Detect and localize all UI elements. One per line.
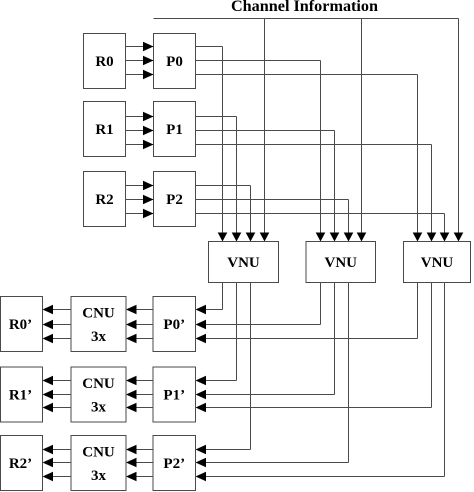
wire P0 output 2 to VNU2 — [196, 60, 321, 62]
wire channel drop to VNU1 — [264, 19, 266, 234]
wire CNU to R2&#8217; line 3 — [53, 476, 71, 478]
wire CNU to R2&#8217; line 2 — [53, 462, 71, 464]
wire channel drop to VNU2 — [361, 19, 363, 234]
wire P0 output 1 to VNU1 — [196, 46, 223, 48]
wire VNU2 output 3 to P2&#8217; — [348, 283, 350, 463]
block P2&#8217; — [153, 436, 196, 491]
wire R1 to P1 line 2 — [126, 130, 154, 132]
svg-text:CNU: CNU — [82, 445, 115, 461]
svg-text:R1’: R1’ — [9, 388, 32, 404]
wire VNU1 output 1 to P0&#8217; — [222, 283, 224, 310]
wire CNU to R0&#8217; line 1 — [53, 309, 71, 311]
svg-text:Channel Information: Channel Information — [231, 0, 378, 15]
wire channel drop to VNU3 — [458, 19, 460, 234]
wire VNU2 output 2 to P1&#8217; — [334, 283, 336, 395]
wire CNU to R0&#8217; line 3 — [53, 338, 71, 340]
block CNU 3x (R1&#8217; row) — [71, 367, 126, 422]
wire P0 output 3 to VNU3 — [196, 74, 418, 76]
block R0&#8217; — [1, 297, 43, 352]
svg-text:R0’: R0’ — [9, 317, 32, 333]
wire P1 output 2 to VNU2 — [196, 130, 335, 132]
block VNU1 — [209, 242, 279, 283]
svg-text:R1: R1 — [95, 122, 113, 138]
wire R1 to P1 line 3 — [126, 144, 154, 146]
wire CNU to R2&#8217; line 1 — [53, 449, 71, 451]
wire VNU3 output 3 to P2&#8217; — [444, 283, 446, 477]
block P1&#8217; — [153, 367, 196, 422]
wire P2 output 2 to VNU2 — [196, 199, 349, 201]
svg-text:VNU: VNU — [421, 255, 454, 271]
block P0&#8217; — [153, 297, 196, 352]
svg-text:R0: R0 — [95, 54, 113, 70]
wire R2 to P2 line 3 — [126, 213, 154, 215]
wire P2&#8217; to CNU line 3 — [137, 476, 154, 478]
block CNU 3x (R2&#8217; row) — [71, 436, 126, 491]
svg-text:P2: P2 — [166, 192, 183, 208]
wire R0 to P0 line 2 — [126, 60, 154, 62]
svg-text:P0: P0 — [166, 54, 183, 70]
svg-text:3x: 3x — [91, 400, 107, 416]
svg-text:P2’: P2’ — [163, 456, 185, 472]
wire P2 output 3 to VNU3 — [196, 213, 445, 215]
block P0 — [154, 34, 196, 89]
svg-text:R2: R2 — [95, 192, 113, 208]
svg-text:R2’: R2’ — [9, 456, 32, 472]
block P1 — [154, 102, 196, 157]
svg-text:VNU: VNU — [227, 255, 260, 271]
block R2 — [84, 172, 126, 227]
svg-text:3x: 3x — [91, 468, 107, 484]
wire P2 output 1 to VNU1 — [196, 185, 251, 187]
svg-text:P1: P1 — [166, 122, 183, 138]
wire P1&#8217; to CNU line 2 — [137, 394, 154, 396]
wire R0 to P0 line 1 — [126, 46, 154, 48]
wire P0&#8217; to CNU line 1 — [137, 309, 154, 311]
wire P0&#8217; to CNU line 3 — [137, 338, 154, 340]
wire P1 output 3 to VNU3 — [196, 144, 432, 146]
wire P1&#8217; to CNU line 1 — [137, 380, 154, 382]
wire VNU3 output 1 to P0&#8217; — [417, 283, 419, 339]
svg-text:CNU: CNU — [82, 376, 115, 392]
wire VNU3 output 2 to P1&#8217; — [431, 283, 433, 408]
block VNU2 — [306, 242, 376, 283]
wire R2 to P2 line 2 — [126, 199, 154, 201]
svg-text:P1’: P1’ — [163, 388, 185, 404]
block R0 — [84, 34, 126, 89]
wire CNU to R1&#8217; line 1 — [53, 380, 71, 382]
wire P2&#8217; to CNU line 2 — [137, 462, 154, 464]
wire VNU1 output 3 to P2&#8217; — [250, 283, 252, 450]
block R2&#8217; — [1, 436, 43, 491]
wire P0&#8217; to CNU line 2 — [137, 324, 154, 326]
wire CNU to R1&#8217; line 3 — [53, 407, 71, 409]
wire P1&#8217; to CNU line 3 — [137, 407, 154, 409]
wire CNU to R0&#8217; line 2 — [53, 324, 71, 326]
block VNU3 — [404, 242, 471, 283]
svg-text:3x: 3x — [91, 329, 107, 345]
svg-text:CNU: CNU — [82, 306, 115, 322]
block CNU 3x (R0&#8217; row) — [71, 297, 126, 352]
wire P2&#8217; to CNU line 1 — [137, 449, 154, 451]
wire VNU2 output 1 to P0&#8217; — [320, 283, 322, 325]
wire R1 to P1 line 1 — [126, 116, 154, 118]
wire VNU1 output 2 to P1&#8217; — [236, 283, 238, 381]
wire R2 to P2 line 1 — [126, 185, 154, 187]
wire P1 output 1 to VNU1 — [196, 116, 237, 118]
wire CNU to R1&#8217; line 2 — [53, 394, 71, 396]
wire R0 to P0 line 3 — [126, 74, 154, 76]
block R1&#8217; — [1, 367, 43, 422]
wire channel-information bus horizontal — [154, 18, 459, 20]
block P2 — [154, 172, 196, 227]
svg-text:VNU: VNU — [325, 255, 358, 271]
svg-text:P0’: P0’ — [163, 317, 185, 333]
block R1 — [84, 102, 126, 157]
